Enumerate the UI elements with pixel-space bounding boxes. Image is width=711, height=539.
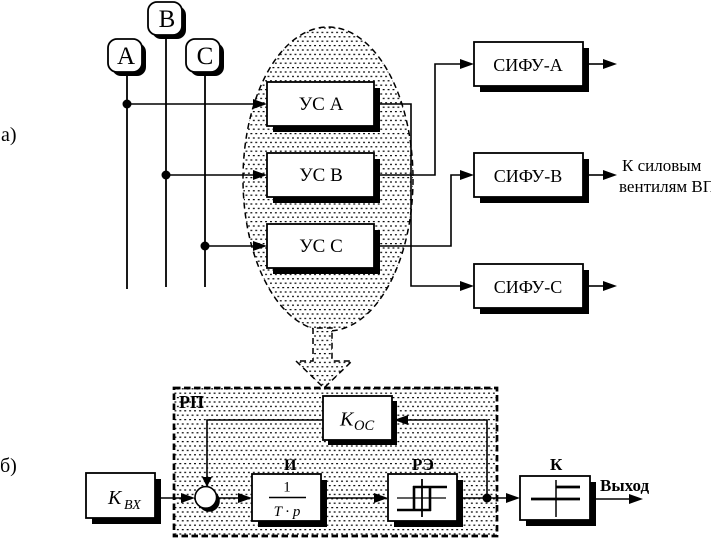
ellipse (selector group boundary) bbox=[243, 27, 413, 331]
svg-text:K: K bbox=[107, 487, 123, 509]
wire RE to node bbox=[457, 497, 487, 499]
svg-text:РП: РП bbox=[179, 392, 204, 412]
svg-text:В: В bbox=[159, 6, 176, 33]
svg-text:УС А: УС А bbox=[299, 94, 344, 115]
svg-text:К: К bbox=[550, 455, 563, 474]
wire SIFU-A output bbox=[589, 63, 604, 65]
wire US B to SIFU-A bbox=[374, 64, 461, 175]
node A input box bbox=[108, 39, 146, 76]
block K output relay bbox=[520, 455, 596, 526]
svg-text:УС В: УС В bbox=[299, 165, 343, 186]
svg-text:И: И bbox=[284, 457, 297, 474]
svg-text:K: K bbox=[339, 409, 355, 431]
svg-text:СИФУ-С: СИФУ-С bbox=[494, 277, 563, 297]
wire K_VX to summer bbox=[155, 497, 182, 499]
svg-text:а): а) bbox=[1, 124, 17, 146]
block K_OC feedback gain bbox=[323, 396, 397, 445]
svg-text:ОС: ОС bbox=[354, 418, 374, 434]
block K_VX input gain bbox=[86, 473, 161, 524]
block arrow from ellipse to RP bbox=[296, 328, 352, 388]
svg-text:ВХ: ВХ bbox=[124, 498, 141, 513]
svg-text:К силовым: К силовым bbox=[622, 156, 702, 175]
junction dot B bbox=[162, 171, 171, 180]
wire US C to SIFU-B bbox=[374, 175, 461, 246]
svg-text:УС С: УС С bbox=[299, 236, 343, 257]
wire phase A vertical bbox=[126, 76, 128, 289]
block I integrator bbox=[252, 457, 327, 527]
block US B bbox=[267, 153, 380, 203]
summing junction bbox=[195, 487, 220, 512]
block SIFU-B bbox=[474, 153, 589, 203]
block US C bbox=[267, 224, 380, 274]
wire SIFU-C output bbox=[589, 285, 604, 287]
RP regulator dashed box bbox=[174, 388, 497, 536]
node B input box bbox=[148, 2, 186, 39]
svg-text:А: А bbox=[117, 43, 135, 70]
wire B to US B bbox=[166, 174, 254, 176]
node after RE bbox=[483, 494, 492, 503]
wire node to K block bbox=[487, 497, 507, 499]
wire A to US A bbox=[127, 103, 254, 105]
svg-text:РЭ: РЭ bbox=[412, 455, 434, 474]
wire SIFU-B output bbox=[589, 174, 604, 176]
junction dot C bbox=[201, 242, 210, 251]
block US A bbox=[267, 82, 380, 132]
junction dot A bbox=[123, 100, 132, 109]
wire node to K_OC input bbox=[408, 420, 487, 498]
svg-text:СИФУ-А: СИФУ-А bbox=[493, 55, 563, 75]
svg-text:Выход: Выход bbox=[600, 476, 649, 495]
block SIFU-A bbox=[474, 42, 589, 92]
block RE relay element bbox=[388, 455, 463, 527]
svg-text:б): б) bbox=[0, 455, 17, 477]
wire C to US C bbox=[205, 245, 254, 247]
svg-text:вентилям ВП: вентилям ВП bbox=[619, 177, 711, 196]
wire K output Vyhod bbox=[596, 498, 630, 500]
wire US A to SIFU-C bbox=[374, 104, 461, 286]
wire K_OC output to summer bbox=[207, 420, 323, 478]
svg-text:СИФУ-В: СИФУ-В bbox=[494, 166, 563, 186]
block SIFU-C bbox=[474, 264, 589, 314]
wire phase B vertical bbox=[165, 39, 167, 287]
wire I to RE block bbox=[321, 497, 375, 499]
svg-text:С: С bbox=[197, 43, 214, 70]
svg-text:1: 1 bbox=[283, 480, 291, 496]
wire phase C vertical bbox=[204, 76, 206, 287]
node C input box bbox=[186, 39, 224, 76]
svg-text:T · p: T · p bbox=[274, 504, 301, 520]
wire summer to I block bbox=[217, 497, 240, 499]
